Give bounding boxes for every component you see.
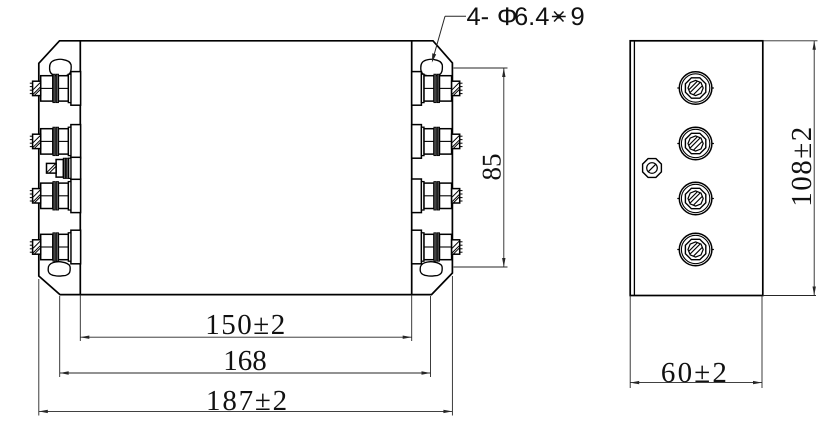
dimension 108±2 line	[813, 41, 815, 296]
dimension 108±2 extension lines	[763, 40, 818, 42]
screw terminal L4 (front-left, cy=247.0)	[30, 230, 81, 264]
side view outline	[630, 41, 763, 296]
dimension 187±2 extension lines	[38, 279, 40, 416]
mounting hole top-left	[50, 59, 72, 76]
side view terminal screw S2 (cy=143.5)	[677, 127, 714, 160]
front view flange outline	[39, 41, 453, 295]
dimension 85 extension lines	[454, 67, 508, 69]
mounting hole top-right	[421, 59, 443, 76]
leader line to mounting hole	[445, 15, 466, 17]
dimension 85 line	[503, 68, 505, 267]
svg-text:6.4: 6.4	[514, 3, 549, 31]
side view terminal screw S1 (cy=88.0)	[677, 72, 714, 105]
screw terminal L1 (front-left, cy=88.4)	[30, 72, 81, 106]
side view flange inner edge	[633, 41, 635, 296]
dimension 168 extension lines	[59, 296, 61, 377]
svg-text:150±2: 150±2	[205, 309, 286, 341]
screw terminal R2 (front-right, cy=141.4)	[412, 125, 463, 159]
dimension 60±2 line	[630, 382, 762, 384]
svg-text:187±2: 187±2	[206, 385, 289, 417]
dimension 150±2 line	[80, 336, 411, 338]
svg-text:168: 168	[223, 345, 267, 377]
dimension 187±2 line	[39, 410, 453, 412]
screw terminal R1 (front-right, cy=88.4)	[412, 72, 463, 106]
svg-text:9: 9	[571, 3, 585, 31]
mounting hole bottom-left	[48, 262, 70, 276]
side view ground screw (cy=168)	[643, 159, 662, 178]
svg-text:4-: 4-	[467, 3, 490, 31]
star symbol in callout	[552, 16, 566, 18]
screw terminal L3 (front-left, cy=195.8)	[30, 179, 81, 213]
side view terminal screw S4 (cy=249.5)	[677, 233, 714, 266]
mounting hole bottom-right	[420, 262, 442, 276]
screw terminal L2 (front-left, cy=141.4)	[30, 125, 81, 159]
dimension 60±2 extension lines	[629, 296, 631, 389]
svg-text:85: 85	[477, 154, 507, 181]
screw terminal R3 (front-right, cy=195.8)	[412, 179, 463, 213]
screw terminal R4 (front-right, cy=247.0)	[412, 230, 463, 264]
leader arrowhead	[432, 53, 436, 62]
ground terminal E (front-left small, cy=168.3)	[47, 157, 81, 179]
dimension 168 line	[60, 372, 431, 374]
svg-text:108±2: 108±2	[786, 125, 818, 206]
side view terminal screw S3 (cy=198.5)	[677, 182, 714, 215]
body right edge	[411, 41, 413, 295]
dimension 150±2 extension lines	[79, 295, 81, 341]
body left edge	[79, 41, 81, 295]
svg-text:60±2: 60±2	[661, 357, 729, 389]
